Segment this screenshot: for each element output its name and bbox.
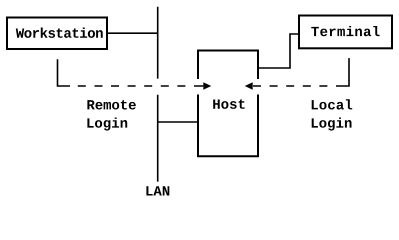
box Workstation (7, 18, 107, 50)
wire terminal to host (258, 34, 299, 68)
wire workstation to LAN (107, 32, 158, 34)
label Local Login (312, 99, 353, 130)
box Host (edges gapped where dashed arrows cross) (198, 51, 258, 157)
label Remote Login (87, 100, 135, 130)
remote login dashed arrow (workstation to host) (58, 59, 212, 90)
box Terminal (299, 16, 392, 49)
local login dashed arrow (terminal to host) (245, 58, 349, 90)
LAN bus vertical line (157, 7, 159, 182)
wire LAN to host (158, 121, 198, 123)
label Terminal (311, 26, 379, 36)
label Host (213, 99, 244, 108)
label Workstation (16, 28, 103, 38)
label LAN (146, 186, 169, 195)
